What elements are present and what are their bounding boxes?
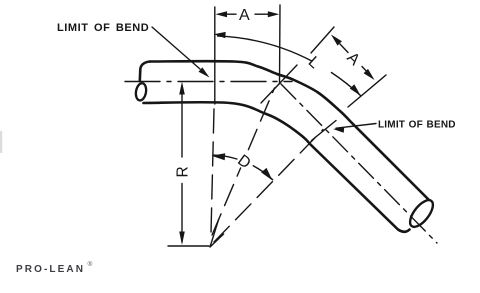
svg-text:LIMIT OF BEND: LIMIT OF BEND [57,22,149,34]
svg-text:A: A [239,7,250,24]
svg-text:R: R [174,166,191,177]
svg-text:®: ® [88,260,93,268]
svg-text:LIMIT OF BEND: LIMIT OF BEND [378,120,456,131]
svg-text:PRO-LEAN: PRO-LEAN [16,264,85,275]
